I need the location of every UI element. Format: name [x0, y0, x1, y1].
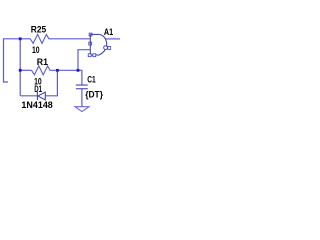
gate A1 pin 3 square — [89, 42, 92, 45]
svg-text:1N4148: 1N4148 — [21, 100, 52, 110]
ground — [75, 107, 89, 112]
svg-text:A1: A1 — [104, 27, 113, 37]
resistor R1 — [32, 66, 51, 75]
wire gate pin4 from R1 node — [78, 50, 90, 71]
gate A1 pin 1 square — [89, 33, 92, 36]
wire vertical x=20 — [19, 39, 21, 96]
svg-text:C1: C1 — [87, 74, 95, 84]
gate A1 pin 5 square — [88, 54, 91, 57]
gate A1 inverted output pin square — [108, 47, 111, 50]
wire gate A1 output to right edge — [105, 38, 120, 40]
wire top-left horizontal (net to R25) — [4, 38, 31, 40]
svg-text:D1: D1 — [34, 84, 42, 94]
node junction R1 left — [19, 69, 22, 72]
svg-text:10: 10 — [32, 45, 40, 55]
svg-text:R25: R25 — [31, 25, 46, 35]
gate A1 com pin square — [93, 54, 96, 57]
wire C1 bottom to ground — [81, 89, 83, 107]
node junction diode branch — [56, 69, 59, 72]
svg-text:{DT}: {DT} — [85, 89, 103, 99]
gate A1 output bubble — [104, 46, 108, 50]
capacitor C1 — [76, 85, 88, 89]
diode D1 — [37, 92, 45, 100]
svg-text:R1: R1 — [37, 57, 48, 67]
resistor R25 — [30, 34, 50, 43]
wire R1 right to C1 top — [51, 70, 82, 85]
wire left vertical with dangling stub — [4, 38, 9, 82]
wire R25 right to gate input pin2 — [50, 38, 90, 40]
wire D1 anode up to R1 row — [45, 70, 57, 96]
wire R1 left — [20, 69, 31, 71]
node junction top — [19, 37, 22, 40]
wire bottom horizontal to D1 cathode — [20, 95, 37, 97]
node junction gate branch — [77, 69, 80, 72]
op-amp gate A1 body — [90, 34, 106, 55]
